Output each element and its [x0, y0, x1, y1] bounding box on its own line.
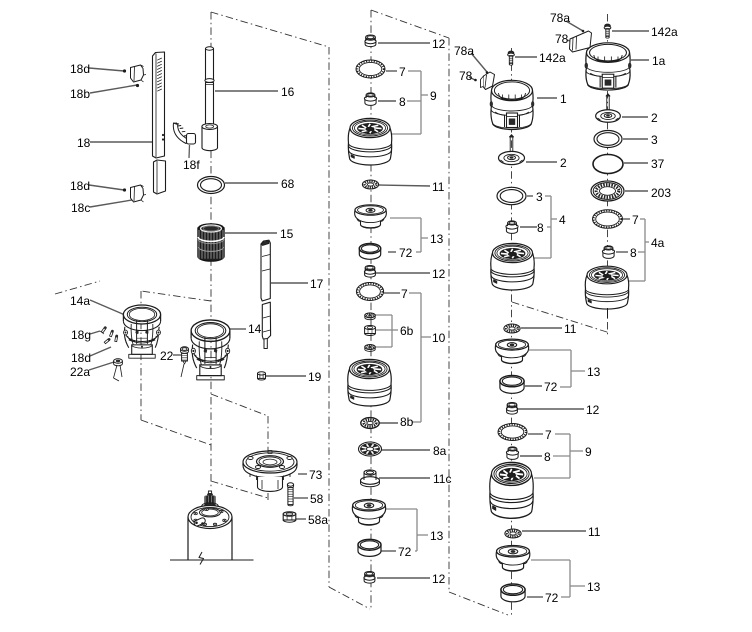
svg-text:8: 8: [544, 450, 551, 464]
svg-text:37: 37: [651, 157, 665, 171]
svg-text:72: 72: [399, 246, 413, 260]
svg-text:78a: 78a: [454, 44, 474, 58]
svg-text:10: 10: [432, 331, 446, 345]
svg-text:11: 11: [432, 180, 445, 194]
svg-text:4: 4: [559, 213, 566, 227]
svg-text:78: 78: [555, 32, 569, 46]
svg-text:9: 9: [430, 89, 437, 103]
svg-text:68: 68: [281, 177, 295, 191]
svg-text:12: 12: [432, 267, 446, 281]
svg-text:22a: 22a: [70, 365, 90, 379]
svg-text:203: 203: [651, 186, 671, 200]
svg-text:72: 72: [398, 545, 412, 559]
svg-text:58: 58: [310, 492, 324, 506]
svg-text:7: 7: [545, 428, 552, 442]
svg-text:1: 1: [560, 92, 567, 106]
svg-text:14: 14: [248, 322, 262, 336]
svg-text:22: 22: [160, 349, 174, 363]
svg-text:17: 17: [310, 277, 324, 291]
svg-text:72: 72: [544, 380, 558, 394]
svg-text:13: 13: [430, 232, 444, 246]
svg-text:2: 2: [560, 156, 567, 170]
svg-text:12: 12: [432, 37, 446, 51]
svg-text:72: 72: [545, 591, 559, 605]
svg-text:1a: 1a: [652, 54, 666, 68]
svg-text:8a: 8a: [433, 444, 447, 458]
svg-text:11: 11: [564, 322, 577, 336]
svg-text:2: 2: [651, 111, 658, 125]
svg-text:12: 12: [432, 572, 446, 586]
svg-text:11c: 11c: [433, 472, 451, 486]
svg-text:16: 16: [281, 85, 295, 99]
svg-text:142a: 142a: [651, 25, 678, 39]
svg-text:78a: 78a: [550, 11, 570, 25]
svg-text:3: 3: [536, 190, 543, 204]
svg-text:18c: 18c: [71, 201, 90, 215]
svg-text:8: 8: [399, 95, 406, 109]
svg-text:18: 18: [77, 136, 91, 150]
svg-text:14a: 14a: [70, 294, 90, 308]
svg-text:11: 11: [588, 525, 601, 539]
svg-text:8: 8: [537, 221, 544, 235]
svg-text:13: 13: [587, 365, 601, 379]
svg-text:18g: 18g: [71, 328, 91, 342]
svg-text:58a: 58a: [308, 513, 328, 527]
svg-text:18d: 18d: [71, 351, 91, 365]
svg-text:7: 7: [399, 65, 406, 79]
svg-text:3: 3: [651, 133, 658, 147]
svg-text:142a: 142a: [539, 51, 566, 65]
svg-text:7: 7: [632, 213, 639, 227]
svg-text:15: 15: [280, 227, 294, 241]
svg-text:4a: 4a: [651, 236, 665, 250]
svg-text:73: 73: [309, 468, 323, 482]
svg-text:6b: 6b: [400, 324, 414, 338]
svg-text:18f: 18f: [183, 158, 200, 172]
svg-text:19: 19: [308, 370, 322, 384]
svg-text:78: 78: [459, 69, 473, 83]
svg-text:12: 12: [586, 403, 600, 417]
svg-text:18d: 18d: [70, 62, 90, 76]
svg-text:7: 7: [401, 287, 408, 301]
svg-text:13: 13: [430, 529, 444, 543]
svg-text:18d: 18d: [70, 179, 90, 193]
svg-text:18b: 18b: [70, 87, 90, 101]
svg-text:9: 9: [585, 445, 592, 459]
svg-text:8b: 8b: [400, 415, 414, 429]
svg-text:8: 8: [630, 246, 637, 260]
svg-text:13: 13: [587, 580, 601, 594]
